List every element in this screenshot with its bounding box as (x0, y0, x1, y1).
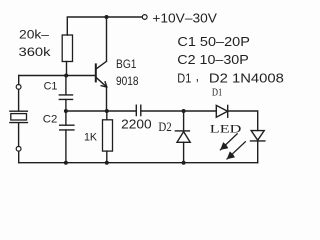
svg-text:360k: 360k (19, 47, 51, 59)
wire left branch lower (18, 151, 20, 162)
wire bottom rail (19, 162, 258, 164)
node junction D2 bottom (182, 161, 186, 165)
wire D2 top (183, 111, 185, 131)
svg-text:C1 50–20P: C1 50–20P (177, 35, 250, 49)
diode D1 (216, 105, 227, 117)
node junction C1C2 (64, 109, 68, 113)
svg-text:D1: D1 (177, 71, 191, 85)
node junction D2 top (182, 109, 186, 113)
wire base rail (19, 75, 96, 77)
terminal crystal top (16, 85, 21, 90)
transistor Q1 BG1 (95, 64, 97, 81)
svg-text:20k–: 20k– (19, 29, 50, 41)
wire 1K top (106, 111, 108, 120)
svg-text:+10V–30V: +10V–30V (152, 12, 217, 26)
node junction base (64, 74, 68, 78)
svg-text:C2 10–30P: C2 10–30P (177, 53, 249, 67)
svg-text:D2 1N4008: D2 1N4008 (209, 71, 284, 85)
wire C2 top (65, 111, 67, 125)
capacitor C2 (60, 125, 74, 130)
capacitor C3 2200 (136, 105, 141, 115)
diode D2 (175, 130, 189, 132)
svg-text:BG1: BG1 (116, 59, 137, 71)
crystal Y1 (10, 111, 28, 122)
svg-text:9018: 9018 (116, 74, 139, 88)
svg-text:C1: C1 (44, 81, 58, 93)
wire mid rail left (66, 110, 136, 112)
wire D1 to corner (228, 111, 258, 131)
terminal crystal bottom (16, 146, 21, 151)
wire to crystal (18, 89, 20, 110)
LED DS1 (251, 131, 264, 141)
svg-text:D2: D2 (158, 120, 171, 134)
LED arrow 1 (220, 134, 237, 150)
svg-text:LED: LED (210, 124, 242, 136)
wire top rail (67, 17, 142, 35)
svg-text:,: , (196, 69, 200, 84)
wire crystal bottom (18, 123, 20, 146)
svg-text:D1: D1 (212, 88, 222, 99)
wire 1K bottom (106, 151, 108, 163)
svg-text:1K: 1K (84, 132, 98, 144)
svg-text:C2: C2 (43, 114, 58, 126)
terminal +V (142, 15, 147, 20)
node junction 1K bottom (105, 161, 109, 165)
wire LED bottom (257, 141, 259, 163)
node junction emitter (105, 109, 109, 113)
LED arrow 2 (227, 142, 245, 159)
wire C1 top (65, 76, 67, 95)
svg-text:2200: 2200 (121, 117, 152, 131)
wire D2 bottom (183, 142, 185, 162)
capacitor C1 (59, 95, 72, 100)
wire mid rail right (141, 110, 216, 112)
wire resistor bottom (66, 62, 68, 76)
wire C2 bottom (65, 130, 67, 163)
node junction C2 bottom (64, 161, 68, 165)
wire left branch upper (18, 76, 20, 85)
node junction top (105, 15, 109, 19)
resistor R1 20k-360k (62, 35, 72, 62)
resistor R2 1K (103, 120, 113, 151)
wire C1 to node (65, 100, 67, 112)
